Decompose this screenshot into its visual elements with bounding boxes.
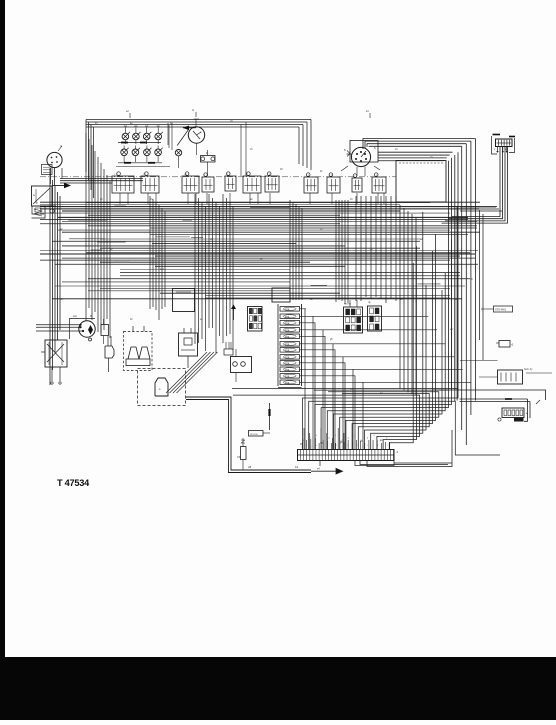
instrument loop bundle to corners [378,151,453,153]
dashed enclosure box E1 [138,369,186,406]
harness band frame lines [40,201,480,203]
relay K10 [352,178,362,192]
relay R0 (two-terminal, above relay row) [201,156,216,163]
svg-text:c8: c8 [248,465,252,469]
link right bus to fuse-block column [460,206,496,208]
fuse block FB1 pin stubs [497,147,499,151]
ignition lower stubs [356,167,358,176]
bottom black scan border [0,657,556,720]
svg-text:horn rly: horn rly [524,368,533,371]
lamp feed bundle top [86,119,311,121]
vertical bundle x150-165 [149,196,151,309]
bracket around fuse block FB1 [492,136,498,154]
right bus upper columns [457,152,459,390]
left black scan border [0,0,5,720]
central harness band D horizontals [120,269,290,271]
L-wire from enclosure to bottom edge [186,397,311,470]
tiny top stubs and labels [129,113,131,118]
label box ATO right [494,306,513,312]
svg-text:wpr: wpr [73,315,77,318]
svg-text:15A: 15A [285,316,290,319]
indicator lamp row 2 [121,149,128,156]
relay K2 [141,176,159,193]
cluster inner step-down wires [245,122,247,176]
relay K3 [182,176,199,193]
left lower box B1 with diagonal [32,186,53,206]
relay K7 [265,176,279,192]
wire plug P1 down to arrow node [54,168,56,187]
large equipment outline box right of relays [396,161,446,203]
splice block S1 [249,431,264,437]
single indicator lamp right [175,150,181,156]
strip to right link wires [360,461,448,465]
steering column switch housing around SW1 [350,141,378,163]
vertical bundle x195-233 [194,194,196,344]
bottom arrow annotation [311,468,343,474]
ground triangle mid [231,305,236,310]
central harness band A horizontals [86,202,430,204]
module box M2 [173,289,195,312]
wiper motor feed lines and pins [36,324,80,326]
module box M3 [272,288,290,302]
vertical stub with thick segment [269,403,271,430]
connector plug P1 (circular, top-left) [47,152,62,167]
short harness stubs in band [97,241,125,243]
stub verticals near gauge [167,123,169,145]
harness lines from plug region [60,178,143,180]
small relay beside motor [101,325,109,336]
terminal strip short risers [302,442,304,450]
fuse feed stubs [300,308,307,310]
vertical bundle x290-302 [289,200,291,300]
lamp bundle step-down right of cluster [310,120,312,171]
relay K5 [225,176,236,191]
relay K16 bottom right [498,370,523,384]
motor assembly box B2 [45,340,67,367]
fuse block FB1 descending wires turning left [452,147,500,217]
sensor inside enclosure E1 [155,378,168,396]
svg-text:15A: 15A [285,349,290,352]
wires to connector CB2 [432,390,546,400]
harness diagonal runs to enclosure E1 [166,352,207,393]
connector block CB2 bottom right [502,408,524,418]
lamp feed bundle verticals (left) [85,120,87,173]
ignition switch SW1 (large circle) [351,147,370,166]
fuse column bus bars [301,304,303,386]
central harness band B horizontals [100,238,420,240]
fuse-to-strip staircase [305,309,306,450]
gauge G1 (clock) top centre [188,127,204,143]
vertical bundle x355-400 [355,196,357,301]
wiper motor bracket [70,319,96,340]
central harness band C horizontals [40,253,475,255]
small label block under CB2 [514,418,524,422]
svg-text:no ma: no ma [344,303,352,306]
svg-text:SPLICE: SPLICE [250,434,258,436]
component B3 (small pod) [105,346,114,358]
relay K6 [243,176,261,193]
wiper motor M1 (circle with diamond rotor) [79,321,95,337]
svg-text:15A: 15A [285,308,290,311]
flasher relay grid K12 [248,307,263,332]
relay K1 [112,176,134,193]
svg-text:15A: 15A [285,356,290,359]
vertical link x455 to bottom [455,401,500,455]
central harness band E horizontals [55,285,465,287]
battery area components left edge [32,206,46,218]
small component right y340 [499,341,510,348]
relay K8 [304,177,318,193]
svg-text:T 47534: T 47534 [57,478,90,488]
svg-text:C8: C8 [237,455,241,459]
svg-text:15A: 15A [285,382,290,385]
gauge G1 lower stub [196,143,198,155]
indicator lamp row 1 [122,133,129,140]
relay K11 [372,177,386,193]
small component under B1 [32,206,44,214]
svg-text:15A: 15A [285,369,290,372]
relay row lower stubs [119,193,121,204]
right descending bundle upper verticals [399,205,401,389]
fuse column F1-F12 [280,307,300,312]
right bus extra columns [479,210,481,340]
hatched terminal box below plug P1 [42,165,53,175]
svg-text:ATO 9401: ATO 9401 [495,309,507,312]
extra short risers left of strip [303,428,305,450]
left vertical bundle x50-60 [49,168,51,385]
relay K14 (pin grid) [344,307,363,333]
fuse block FB1 top right (cell row) [496,139,513,147]
connector stack C2 mid [224,349,233,355]
terminal strip TS1 [298,450,395,461]
right bus outer columns [475,139,477,401]
relay K15 (pin grid) [368,306,382,331]
under-strip extension box [355,461,394,466]
svg-text:b1: b1 [295,465,299,469]
svg-text:15A: 15A [285,343,290,346]
arrow feeding gauge G1 [183,127,196,129]
strip drop stub [319,461,321,467]
ignition top bundle to corners [363,139,476,150]
svg-text:15A: 15A [285,322,290,325]
below-row bus with labels [118,162,162,164]
distributor block B5 [179,333,198,356]
svg-text:15A: 15A [285,336,290,339]
ignition coil box B4 (dashed, two towers) [124,332,153,371]
relay K13 with terminals [231,357,252,373]
right bus staircase S-jog nest into strip [232,389,458,450]
svg-text:15A: 15A [285,329,290,332]
relay K4 [202,177,214,192]
relay K9 [327,177,340,193]
arrow into harness (top-left) [52,185,64,187]
inline fuse capsule C8 [241,447,247,460]
svg-text:15A: 15A [285,362,290,365]
vertical bundle x335-348 [335,200,337,302]
inter-row bus with labels [118,142,161,144]
vertical bundle x86-110 [85,133,87,321]
svg-text:15A: 15A [285,375,290,378]
relay row chassis dash-dot line [40,176,396,178]
